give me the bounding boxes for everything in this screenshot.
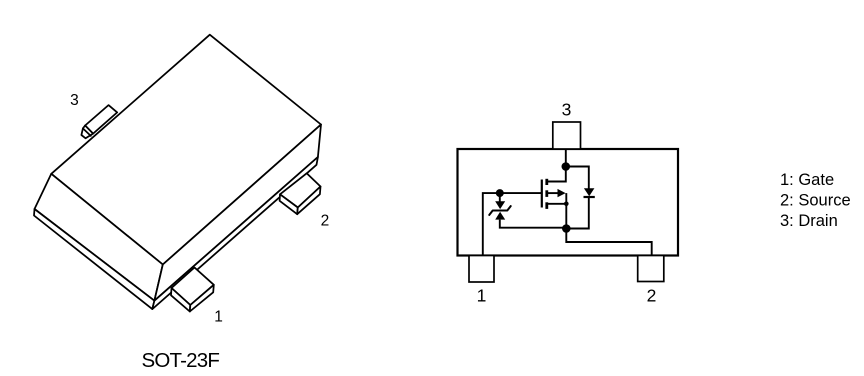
package left bottom wall [34, 209, 154, 309]
zener D2 upper triangle [495, 201, 505, 209]
mosfet Q1 body arrow [558, 189, 566, 197]
wire gate: gate bar to gate node to pin1 [483, 193, 542, 255]
zener D2 stub from gate node [499, 193, 501, 202]
mosfet Q1 body horizontal wire [547, 192, 558, 194]
pin 2 tab [638, 256, 664, 282]
svg-text:1: 1 [477, 286, 487, 306]
lead 2 left face [280, 194, 298, 214]
lead 1 end face [190, 285, 214, 312]
svg-text:2: 2 [647, 285, 657, 305]
wire drain: tab3 down to drain node [565, 149, 567, 167]
pin 1 tab [469, 256, 494, 283]
body diode D1 triangle [584, 188, 595, 196]
wire mosfet body vertical to source node [565, 193, 567, 228]
package right bottom wall [152, 157, 318, 309]
node source dot [562, 224, 571, 233]
zener D2 lower triangle [495, 212, 505, 220]
svg-text:3: Drain: 3: Drain [780, 212, 838, 230]
svg-text:3: 3 [70, 92, 79, 109]
lead 3 end faces [81, 126, 93, 139]
svg-text:1: Gate: 1: Gate [780, 171, 834, 189]
svg-text:3: 3 [562, 100, 572, 120]
wire diode bottom to source node [566, 197, 589, 229]
lead 2 top face [280, 173, 321, 207]
package right bevel face [154, 125, 321, 301]
wire source node down and right to pin2 [566, 229, 651, 256]
mosfet Q1 gate bar [541, 180, 543, 208]
package body top face [51, 35, 321, 265]
wire drain node to diode branch top [566, 167, 589, 189]
lead 3 of package (top face) [85, 105, 117, 134]
lead 1 left face [171, 288, 190, 312]
wire zener bottom to source wire [500, 220, 567, 228]
schematic package outline box [458, 149, 679, 256]
wire mosfet source horizontal [547, 203, 567, 205]
mosfet Q1 channel segment source [545, 202, 548, 209]
wire drain stub to mosfet top segment [547, 167, 566, 182]
svg-text:2: Source: 2: Source [780, 192, 851, 210]
package left bevel face [35, 174, 163, 301]
node gate dot [496, 189, 504, 197]
svg-text:1: 1 [214, 309, 223, 326]
zener D2 bar with hooks [489, 206, 510, 215]
lead 2 end face [297, 187, 320, 215]
svg-text:SOT-23F: SOT-23F [142, 349, 220, 372]
svg-text:2: 2 [321, 212, 330, 229]
lead 1 top face [172, 268, 214, 306]
node drain dot [562, 162, 571, 171]
pin 3 tab [553, 122, 581, 149]
node body-source junction small dot [564, 202, 569, 207]
body diode D1 cathode bar [584, 196, 595, 198]
mosfet Q1 channel segment drain [545, 179, 548, 185]
mosfet Q1 channel segment body [545, 190, 548, 197]
